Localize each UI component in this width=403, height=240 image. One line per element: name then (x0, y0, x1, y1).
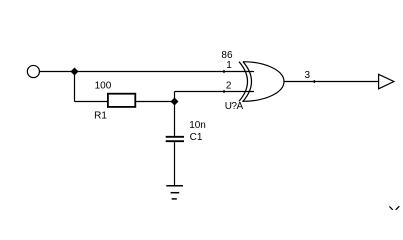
wire output pin 3 (284, 81, 379, 83)
junction node A (71, 68, 79, 76)
corner mark stroke right (396, 206, 400, 210)
input terminal circle (27, 65, 39, 77)
wire junction B down to capacitor (174, 102, 176, 137)
xor gate U?A body (243, 62, 284, 102)
svg-text:1: 1 (226, 60, 232, 71)
capacitor C1 bottom plate (166, 140, 184, 142)
output terminal triangle (379, 74, 394, 89)
ground bar 3 (172, 198, 177, 200)
junction node B (171, 98, 179, 106)
svg-text:10n: 10n (189, 120, 206, 131)
pin 3 end tick (313, 80, 316, 84)
wire to pin 2 (175, 91, 255, 93)
wire capacitor to ground (174, 142, 176, 186)
svg-text:2: 2 (226, 80, 232, 91)
pin 1 end tick (223, 70, 226, 74)
wire junction A down (74, 72, 76, 102)
wire resistor right to junction B (136, 101, 175, 103)
svg-text:3: 3 (305, 70, 311, 81)
resistor R1 body (108, 94, 135, 107)
wire input to pin 1 (40, 71, 254, 73)
wire to resistor left (75, 101, 109, 103)
ground bar 1 (166, 185, 183, 187)
xor gate U?A input side arc (239, 62, 248, 102)
svg-text:100: 100 (95, 80, 112, 91)
wire junction B up (174, 92, 176, 102)
pin 2 end tick (223, 90, 226, 94)
corner mark stroke left (389, 206, 392, 210)
capacitor C1 top plate (166, 136, 184, 138)
ground bar 2 (171, 192, 180, 194)
svg-text:R1: R1 (94, 110, 107, 121)
svg-text:C1: C1 (190, 132, 203, 143)
svg-text:U?A: U?A (225, 101, 244, 112)
